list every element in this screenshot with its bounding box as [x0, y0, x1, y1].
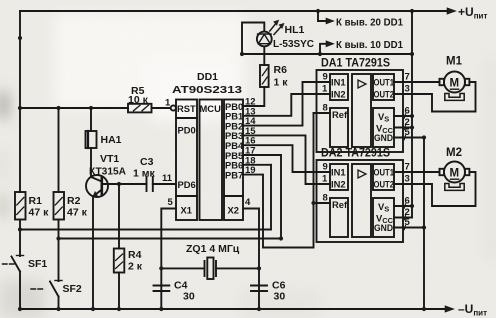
switch SF2 [31, 281, 82, 310]
node dots +U vert at DA1 Vs Vcc [410, 114, 414, 118]
node dot +U vert DA2 Vs [410, 204, 414, 208]
crystal ZQ1 [186, 243, 240, 279]
wire bottom -U rail [20, 308, 446, 310]
node -U arrow [445, 306, 454, 312]
wire PB5 pin17 [243, 154, 281, 156]
node dot SF2 bottom rail [56, 307, 60, 311]
node dot C6 bottom rail [257, 307, 261, 311]
wire PB3 pin15 to DA2 IN2 [243, 135, 330, 184]
wire X1 pin5 branch [161, 209, 176, 310]
IC DA2 TA7291S [317, 148, 411, 243]
node dot C4 bottom rail [159, 307, 163, 311]
wire GND vertical x424 [423, 138, 425, 310]
node dot base/R4 [117, 182, 121, 186]
wire PB6 pin18 [243, 164, 271, 166]
wire DA2 OUT1 to M2 [394, 171, 440, 173]
motor M2 [440, 147, 470, 190]
capacitor C4 [154, 280, 195, 303]
wire LED feed line y54 [242, 53, 412, 55]
resistor R2 [54, 108, 88, 281]
node junction dot on left rail [18, 36, 22, 40]
wire SF1 sense line y229.5 to PB6 [20, 165, 271, 230]
wire VT1 base to C3 to PD6 [102, 183, 176, 185]
motor M1 [440, 56, 470, 101]
wire DA1 OUT2 loop to M1 right [394, 82, 476, 112]
node dot GND DA1 [422, 135, 426, 139]
node dot SF1 line left [18, 227, 22, 231]
node dot VT1 emitter bottom rail [91, 307, 95, 311]
wire DA1 OUT1 to M1 [394, 81, 440, 83]
IC DA1 TA7291S [317, 58, 411, 153]
node dot Ref DA2 [311, 201, 315, 205]
wire top +U rail [20, 10, 448, 12]
wire DA2 Vs Vcc GND leads [394, 206, 424, 228]
node dot stub10 [318, 52, 322, 56]
wire DA2 OUT2 loop to M2 right [394, 172, 476, 206]
node dot LED feed left [240, 52, 244, 56]
resistor R6 [260, 64, 288, 89]
wire PB1 pin13 to DA1 IN2 [243, 94, 330, 116]
sounder HA1 [86, 108, 122, 176]
stub K vyv 10 DD1 [320, 39, 403, 54]
wire PB2 pin14 to DA1 IN1 [243, 82, 330, 126]
node dot SF2 line left [56, 236, 60, 240]
wire Ref leads [314, 113, 331, 203]
resistor R5 [128, 85, 171, 112]
wire +U vertical x412 [411, 11, 413, 218]
resistor R4 [114, 184, 143, 309]
node dot GND rail [422, 307, 426, 311]
stub K vyv 20 DD1 [318, 11, 403, 29]
switch SF1 [3, 256, 48, 310]
node dot +U vert top [410, 9, 414, 13]
wire PB0 pin12 to R6 [243, 87, 264, 106]
capacitor C3 [133, 156, 156, 191]
node dot GND DA2 [422, 225, 426, 229]
wire PB4 pin16 to DA2 IN1 [243, 145, 330, 172]
node dot +U vert y54 [410, 52, 414, 56]
wire X2 pin4 branch [243, 209, 259, 310]
LED HL1 [242, 20, 314, 65]
wire left vertical rail top segment [19, 11, 21, 192]
node dot R4 bottom rail [117, 307, 121, 311]
node dot SF2 line right at PB5 vertical [279, 236, 283, 240]
node dot crystal right [257, 266, 261, 270]
transistor VT1 [86, 153, 126, 309]
wire PB7 pin19 to Ref chain [243, 113, 314, 248]
wire second horizontal rail y108 [20, 107, 128, 109]
node dot HA1 branch y108 [89, 106, 93, 110]
IC DD1 AT90S2313 [162, 71, 256, 220]
node dot left rail y108 [18, 106, 22, 110]
wire DA1 Vs Vcc GND leads [394, 116, 424, 138]
wire SF2 sense line y238.5 to PB5 [59, 155, 282, 239]
node dot stub20 [316, 9, 320, 13]
resistor R1 [15, 192, 49, 256]
node +U arrow [447, 8, 456, 14]
node dot R2 branch y108 [56, 106, 60, 110]
node dot crystal left [159, 266, 163, 270]
wire crystal row [161, 267, 259, 269]
capacitor C6 [251, 280, 286, 303]
node dot SF1 bottom rail [18, 307, 22, 311]
